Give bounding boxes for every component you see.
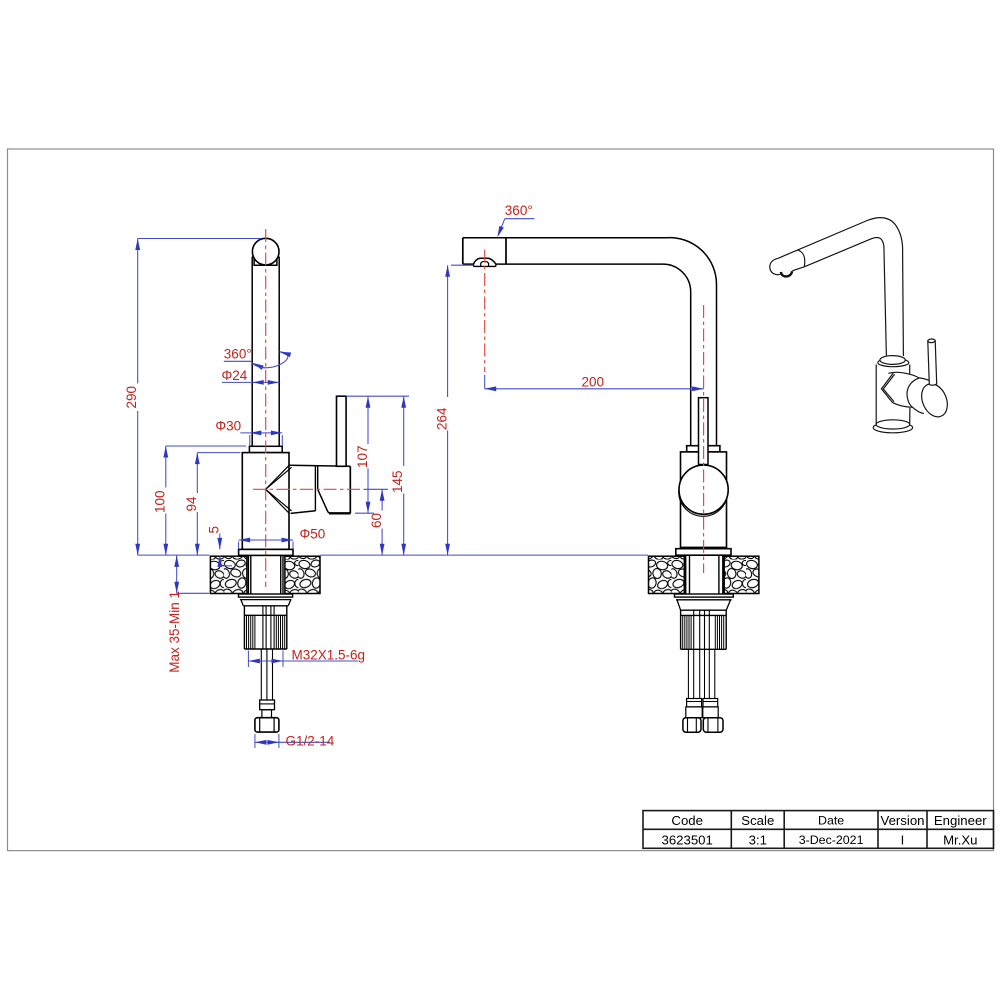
- hose ferrules (side): [687, 699, 702, 707]
- 3D handle lever bar: [928, 341, 937, 386]
- svg-text:290: 290: [124, 386, 139, 409]
- dim 100: [152, 446, 246, 555]
- hose lines inside nut (side): [694, 611, 710, 650]
- supply hose (front): [261, 649, 272, 700]
- dim 264: [434, 265, 473, 555]
- dim Phi30: [215, 419, 282, 446]
- hose neck (front): [262, 710, 272, 718]
- base flange (front, Phi50): [239, 549, 293, 555]
- hex nut (front, G1/2): [255, 718, 279, 732]
- svg-text:107: 107: [355, 445, 370, 468]
- svg-text:5: 5: [206, 526, 221, 534]
- dim Phi24: [222, 368, 280, 385]
- hub right edge: [349, 466, 351, 513]
- main body cylinder (front): [242, 453, 289, 550]
- cartridge diagonal edge: [318, 489, 331, 513]
- 3D valve cone beak: [881, 373, 893, 403]
- svg-text:Φ24: Φ24: [222, 368, 248, 383]
- collar ring (front, Phi30): [249, 446, 282, 452]
- svg-text:G1/2-14: G1/2-14: [286, 734, 335, 749]
- 3D base flange: [873, 422, 912, 432]
- svg-text:94: 94: [184, 496, 199, 512]
- flare cone (front): [241, 600, 291, 606]
- svg-text:M32X1.5-6g: M32X1.5-6g: [292, 648, 366, 663]
- 3D tube base collar: [878, 359, 909, 367]
- spout nozzle end piece (side): [463, 238, 506, 264]
- red centerline downtube/body (side): [703, 305, 705, 573]
- horseshoe washer (side): [675, 594, 734, 597]
- horseshoe washer (front): [239, 594, 293, 597]
- svg-text:60: 60: [369, 513, 384, 528]
- 3D aerator bump: [781, 271, 792, 276]
- valve cone beak (front): [266, 465, 292, 514]
- threaded shank (side): [686, 555, 723, 594]
- ball cup bracket: [254, 258, 277, 265]
- supply hoses (side): [688, 649, 714, 698]
- 3D spout top edge + outer bend + outer downtube edge: [778, 218, 904, 356]
- hub circle secondary rim (side): [679, 467, 728, 516]
- svg-text:Code: Code: [671, 813, 703, 828]
- hex nuts (side): [683, 718, 701, 733]
- 3D valve cone lower edge: [893, 403, 913, 408]
- base flange (side): [676, 549, 731, 556]
- svg-text:I: I: [901, 832, 905, 847]
- countertop level extension line: [138, 554, 210, 556]
- svg-text:Scale: Scale: [741, 813, 774, 828]
- 3D hub top side edge: [919, 378, 936, 385]
- 3D spout bottom short edges at tip: [792, 267, 804, 271]
- valve hub bottom-left edge: [291, 511, 316, 514]
- threaded shank (front): [248, 555, 283, 594]
- svg-text:Date: Date: [818, 814, 844, 828]
- handle lever bar (side): [699, 398, 709, 465]
- faucet riser tube (front): [252, 257, 279, 447]
- dim 94: [184, 453, 241, 556]
- aerator base lip: [474, 264, 496, 266]
- 3D spout lower edge + inner bend + inner downtube edge: [804, 237, 886, 357]
- 3D hub seam ring arc: [907, 378, 919, 407]
- hose ferrule (front): [260, 700, 275, 710]
- red centerline vertical (front): [265, 229, 267, 587]
- 3D spout end cap: [770, 258, 782, 274]
- countertop hatch right block (front): [285, 556, 320, 593]
- countertop hatch right block (side): [724, 556, 759, 593]
- collar ring (side): [687, 446, 720, 452]
- svg-text:Version: Version: [881, 813, 925, 828]
- 3D body sides: [876, 365, 910, 425]
- svg-text:Max 35-Min 1: Max 35-Min 1: [167, 591, 182, 673]
- dim 200: [485, 374, 704, 391]
- label 360 rotation (side): [495, 203, 534, 238]
- svg-text:3:1: 3:1: [749, 832, 767, 847]
- nut knurling: [247, 615, 285, 649]
- hose lines inside nut: [263, 606, 274, 649]
- 3D lever top cap: [928, 339, 935, 343]
- dim 107: [346, 396, 409, 513]
- svg-text:264: 264: [434, 407, 449, 430]
- dim 145: [390, 396, 406, 555]
- svg-text:360°: 360°: [505, 203, 533, 218]
- svg-text:360°: 360°: [224, 347, 252, 362]
- nut knurling (side): [683, 615, 724, 649]
- dim 290: [124, 239, 261, 556]
- svg-text:100: 100: [152, 490, 167, 513]
- label 360 rotation (front): [224, 347, 291, 370]
- 3D hub bottom side edge: [913, 407, 924, 413]
- cone/cartridge seam lines: [314, 466, 316, 511]
- aerator dome (side): [474, 258, 496, 264]
- countertop hatch left block (side): [649, 556, 685, 593]
- svg-text:200: 200: [582, 374, 605, 389]
- mounting nut (front): [244, 606, 286, 649]
- body cylinder (side): [681, 452, 727, 548]
- spout bottom edge + inner bend + left downtube edge: [463, 264, 691, 446]
- countertop hatch left block (front): [210, 556, 247, 593]
- swivel ball top (front): [252, 238, 279, 265]
- red centerline horizontal (front hub axis): [253, 488, 364, 490]
- dim M32X1.5-6g: [248, 648, 365, 668]
- spout horizontal arm top edge + outer bend + right downtube edge: [463, 238, 717, 446]
- handle lever bar (front): [337, 396, 347, 466]
- title block table: [643, 811, 994, 849]
- hub circle (side): [679, 465, 728, 514]
- dim 5 (flange height): [206, 526, 232, 567]
- aerator insert: [481, 262, 489, 267]
- flare cone (side): [677, 600, 731, 610]
- mounting nut (side): [681, 610, 727, 649]
- svg-text:Φ50: Φ50: [300, 526, 326, 541]
- svg-text:Engineer: Engineer: [934, 813, 987, 828]
- svg-text:Mr.Xu: Mr.Xu: [943, 832, 977, 847]
- svg-text:Φ30: Φ30: [215, 419, 241, 434]
- svg-text:145: 145: [390, 470, 405, 493]
- 3D valve cone upper edge: [888, 372, 919, 378]
- 3D valve cone white cover: [881, 372, 935, 415]
- dim Phi50: [239, 526, 326, 548]
- red centerline outlet (side): [484, 250, 486, 373]
- hub bottom edge: [329, 512, 351, 514]
- dim 60: [364, 489, 389, 555]
- valve hub top edge: [290, 465, 351, 466]
- 3D nozzle seam ellipse: [797, 250, 804, 267]
- svg-text:3623501: 3623501: [662, 832, 713, 847]
- 3D handle hub cap ellipse: [917, 380, 952, 421]
- dim Max 35-Min 1 (counter thickness): [167, 555, 209, 672]
- dim G1/2-14: [255, 734, 335, 749]
- drawing sheet frame: [8, 149, 994, 851]
- svg-text:3-Dec-2021: 3-Dec-2021: [799, 833, 864, 847]
